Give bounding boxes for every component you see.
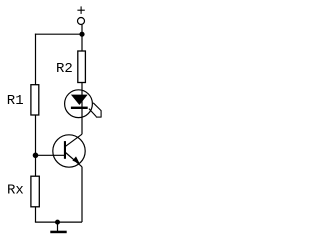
- wire base wire to transistor: [36, 154, 65, 156]
- resistor R1: [31, 85, 39, 115]
- resistor R2: [78, 51, 86, 83]
- transistor Q1 circle: [53, 135, 85, 167]
- LED light emission arrow: [89, 103, 102, 118]
- ground junction dot: [55, 220, 60, 225]
- LED anode triangle: [71, 95, 88, 105]
- svg-text:R1: R1: [7, 93, 24, 109]
- supply terminal (open circle): [78, 18, 85, 25]
- LED circle: [65, 90, 93, 118]
- ground bar: [50, 231, 66, 234]
- wire R2 through LED down to collector corner: [81, 83, 83, 135]
- wire top rail: [35, 33, 82, 35]
- transistor emitter line: [66, 153, 83, 167]
- transistor base bar: [64, 141, 66, 159]
- transistor collector line: [66, 134, 83, 146]
- node junction dot (left, base node): [33, 153, 39, 159]
- wire node to R2: [81, 34, 83, 51]
- node junction dot (top): [79, 32, 84, 37]
- wire left vertical to R1: [35, 34, 37, 85]
- wire terminal stub to node: [81, 25, 83, 33]
- plus sign (positive supply marking): [77, 6, 84, 13]
- ground stub: [57, 222, 59, 231]
- wire R1 to node: [35, 115, 37, 155]
- LED cathode bar: [71, 107, 88, 109]
- wire node to Rx: [35, 155, 37, 176]
- svg-text:Rx: Rx: [7, 183, 24, 199]
- transistor emitter arrowhead: [72, 156, 79, 163]
- wire bottom rail: [35, 221, 82, 223]
- svg-text:R2: R2: [56, 61, 73, 77]
- wire Rx to bottom rail: [35, 207, 37, 222]
- wire emitter to bottom rail: [81, 167, 83, 222]
- resistor Rx: [31, 176, 39, 207]
